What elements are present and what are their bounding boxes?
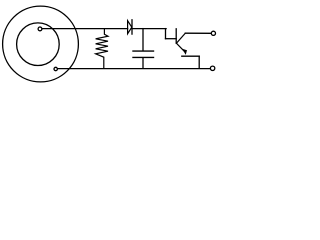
transistor Q1 emitter stroke xyxy=(177,43,185,51)
capacitor C1 top lead xyxy=(142,29,144,51)
transistor Q1 emitter arrowhead xyxy=(182,49,187,55)
terminal bottom-left xyxy=(54,67,57,70)
wire collector to terminal xyxy=(185,32,211,34)
wire bottom rail xyxy=(57,68,210,70)
capacitor C1 bottom lead xyxy=(142,58,144,68)
terminal top-left xyxy=(38,27,42,31)
wire corner drop to base xyxy=(165,29,167,39)
resistor R1 xyxy=(96,29,108,68)
wire base lead xyxy=(166,38,177,40)
transistor Q1 collector stroke xyxy=(177,33,186,43)
wire top rail (terminal to diode anode) xyxy=(42,28,128,30)
terminal top-right xyxy=(211,31,215,35)
pickup coil inner circle xyxy=(17,23,60,66)
capacitor C1 bottom plate xyxy=(133,56,154,58)
pickup coil outer circle xyxy=(3,6,79,82)
diode D1 triangle xyxy=(128,21,132,34)
diode D1 cathode bar xyxy=(131,20,133,34)
capacitor C1 top plate xyxy=(133,50,154,52)
transistor Q1 base bar xyxy=(175,29,177,43)
wire diode cathode to corner xyxy=(132,28,166,30)
terminal bottom-right xyxy=(210,66,214,70)
wire emitter drop xyxy=(198,56,200,68)
wire emitter horizontal xyxy=(182,55,199,57)
